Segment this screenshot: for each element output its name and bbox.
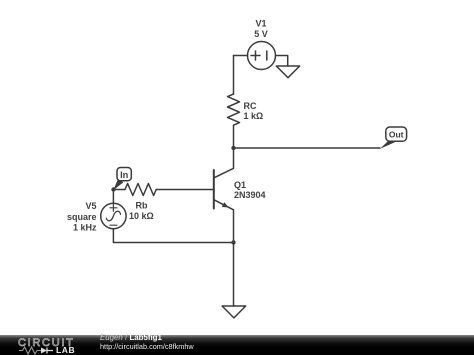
footer bar: [0, 335, 474, 355]
wire V5 bottom to emitter node: [113, 229, 233, 243]
flag Out tail: [380, 141, 397, 149]
resistor RC: [228, 94, 240, 125]
V1 plus sign: [251, 51, 260, 60]
transistor Q1 emitter: [214, 200, 234, 243]
title line: [100, 333, 162, 342]
V1 minus bar: [266, 51, 268, 60]
logo CIRCUIT word: [18, 337, 75, 349]
ground bottom: [222, 306, 246, 318]
logo LAB word: [56, 345, 75, 355]
transistor Q1 base bar: [213, 170, 215, 209]
flag In tail: [114, 180, 124, 190]
wire base: [156, 189, 214, 191]
svg-text:1 kΩ: 1 kΩ: [244, 111, 264, 121]
wire V5 top: [112, 190, 114, 204]
flag In box: [117, 168, 131, 181]
svg-text:In: In: [120, 170, 129, 180]
ground top right: [276, 66, 299, 78]
wire RC to collector node: [233, 125, 235, 148]
svg-text:V1: V1: [255, 19, 266, 29]
transistor Q1 emitter arrow: [222, 202, 229, 207]
svg-text:5 V: 5 V: [254, 29, 268, 39]
flag Out box: [386, 127, 407, 141]
svg-text:V5: V5: [85, 201, 96, 211]
wire emitter node to ground: [233, 243, 235, 307]
logo zigzag + diode: [19, 346, 59, 355]
V5 sine wave: [106, 211, 120, 221]
wire V1 right lead: [276, 56, 288, 67]
wire V1 to RC: [233, 56, 235, 95]
voltage source V5: [101, 203, 126, 228]
wire collector node to Out: [234, 147, 381, 149]
V5 minus: [110, 224, 117, 226]
node dot emitter: [231, 240, 235, 244]
voltage source V1: [248, 42, 276, 70]
svg-text:Q1: Q1: [234, 180, 246, 190]
svg-text:10 kΩ: 10 kΩ: [129, 211, 154, 221]
transistor Q1 collector: [214, 148, 234, 178]
wire In node to Rb: [114, 189, 126, 191]
svg-text:Rb: Rb: [136, 201, 148, 211]
svg-text:2N3904: 2N3904: [234, 190, 266, 200]
svg-text:Out: Out: [389, 129, 404, 139]
node dot collector: [231, 146, 235, 150]
wire V1 left lead: [234, 55, 248, 57]
svg-text:square: square: [67, 212, 97, 222]
V5 plus: [110, 204, 117, 211]
url line: [100, 342, 194, 351]
svg-text:RC: RC: [244, 101, 257, 111]
svg-text:1 kHz: 1 kHz: [73, 223, 97, 233]
node dot In: [111, 187, 115, 191]
resistor Rb: [125, 184, 156, 196]
